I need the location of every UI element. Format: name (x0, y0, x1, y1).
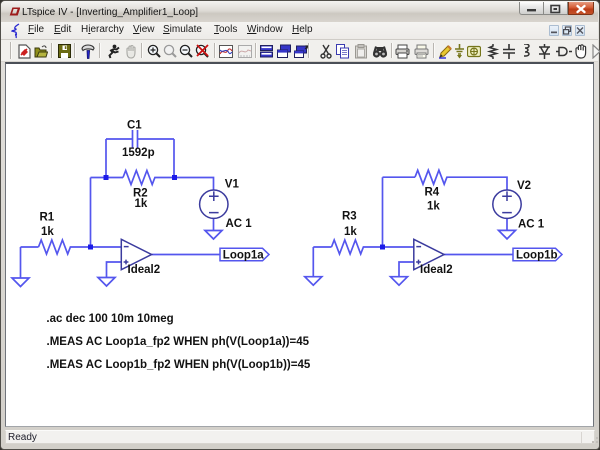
svg-text:Loop1a: Loop1a (223, 250, 264, 262)
svg-text:1k: 1k (135, 198, 148, 210)
svg-text:R3: R3 (342, 211, 357, 223)
svg-text:1k: 1k (344, 226, 357, 238)
svg-text:Ideal2: Ideal2 (128, 264, 161, 276)
svg-text:Ideal2: Ideal2 (420, 264, 453, 276)
svg-text:.MEAS AC Loop1b_fp2 WHEN ph(V(: .MEAS AC Loop1b_fp2 WHEN ph(V(Loop1b))=4… (47, 359, 311, 371)
svg-text:.ac dec 100 10m 10meg: .ac dec 100 10m 10meg (46, 313, 173, 325)
svg-text:R4: R4 (425, 187, 440, 199)
svg-text:C1: C1 (127, 119, 142, 131)
svg-text:AC 1: AC 1 (518, 218, 545, 230)
svg-text:1k: 1k (41, 226, 54, 238)
svg-text:1592p: 1592p (122, 147, 155, 159)
svg-text:1k: 1k (427, 201, 440, 213)
svg-text:V1: V1 (225, 179, 240, 191)
svg-text:.MEAS AC Loop1a_fp2 WHEN ph(V(: .MEAS AC Loop1a_fp2 WHEN ph(V(Loop1a))=4… (47, 336, 310, 348)
svg-text:Loop1b: Loop1b (516, 250, 558, 262)
svg-text:AC 1: AC 1 (226, 218, 253, 230)
svg-text:R1: R1 (40, 212, 55, 224)
svg-text:V2: V2 (517, 180, 531, 192)
